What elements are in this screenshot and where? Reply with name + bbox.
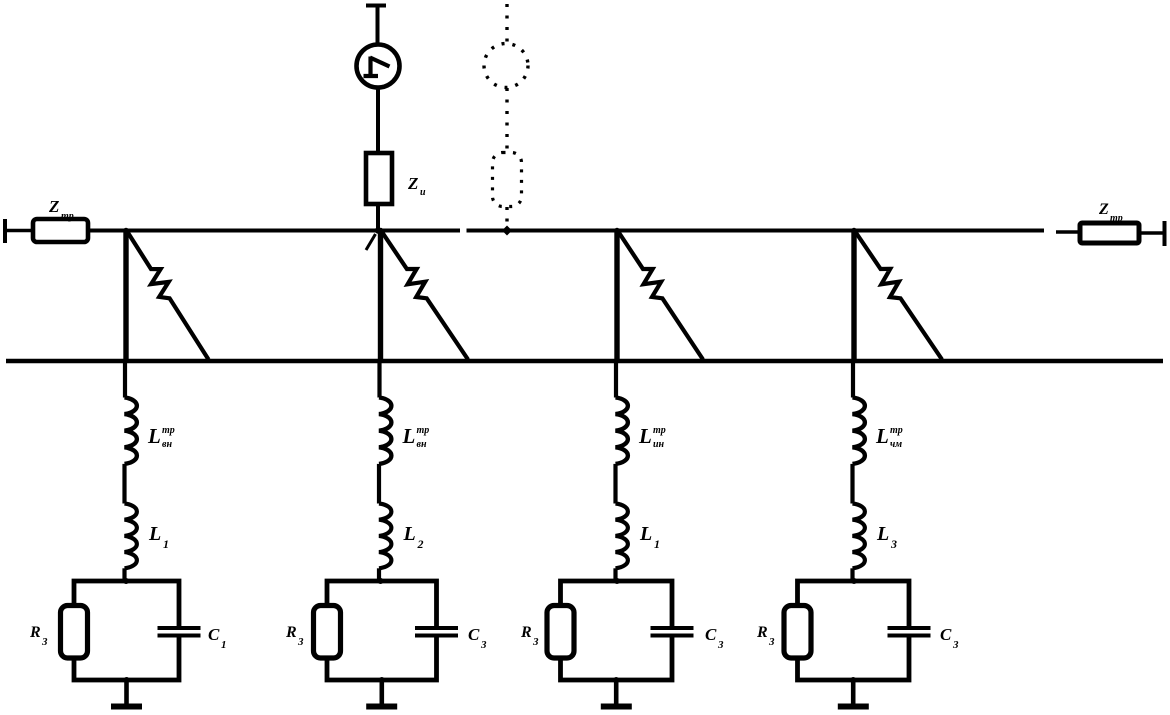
label C3 tower 4: [940, 625, 959, 651]
svg-text:3: 3: [297, 636, 304, 648]
node tower 1 on bus: [123, 228, 129, 234]
impedance Z_i box: [366, 153, 392, 204]
wire Zi to bus: [376, 204, 380, 231]
wire generator to Zi: [376, 87, 380, 153]
wire drop tower 2 (bus to rail): [378, 229, 383, 364]
node tank bottom 1: [124, 677, 130, 683]
terminal top bar: [366, 4, 386, 8]
wire top bus segment 3: [1056, 230, 1080, 234]
svg-text:R: R: [29, 624, 41, 641]
svg-text:C: C: [705, 625, 717, 644]
inductor L1 tower 3: [616, 504, 628, 569]
svg-text:L: L: [147, 424, 161, 448]
svg-text:ин: ин: [653, 439, 665, 450]
tank circuit frame 1: [74, 581, 179, 680]
wire drop tower 4 (rail to coil): [851, 361, 855, 398]
svg-text:L: L: [638, 424, 652, 448]
resistor R3 tower 3: [547, 606, 574, 659]
inductor L_tr 2: [379, 398, 391, 464]
resistor R3 tower 1: [61, 606, 88, 659]
wire left lead: [5, 229, 33, 233]
label L_tr 3: [638, 424, 666, 450]
wire drop tower 3 (bus to rail): [614, 229, 619, 364]
svg-text:L: L: [876, 523, 889, 545]
svg-text:L: L: [403, 523, 416, 545]
wire between coils 1: [122, 464, 126, 504]
svg-text:тр: тр: [890, 425, 903, 436]
wire drop tower 2 (rail to coil): [377, 361, 381, 398]
inductor L_tr 4: [853, 398, 865, 464]
ground tower 1: [111, 704, 142, 710]
wire right lead: [1139, 231, 1164, 235]
label L_tr 2: [402, 424, 430, 450]
label L_tr 4: [875, 424, 903, 450]
phantom dotted wire middle: [505, 88, 508, 152]
inductor L2 tower 2: [379, 504, 391, 569]
svg-text:L: L: [639, 523, 652, 545]
wire tank to ground 3: [614, 680, 619, 704]
svg-text:3: 3: [768, 636, 775, 648]
wire drop tower 4 (bus to rail): [851, 229, 856, 364]
tank circuit frame 3: [561, 581, 673, 680]
svg-text:тр: тр: [1110, 213, 1123, 224]
capacitor C3 plates tower 2: [415, 628, 458, 636]
capacitor C3 plates tower 4: [888, 628, 931, 636]
label Z_tr right: [1098, 201, 1123, 224]
svg-text:тр: тр: [417, 425, 430, 436]
wire generator top: [376, 6, 380, 46]
phantom dotted wire top: [505, 4, 508, 44]
svg-text:вн: вн: [162, 439, 172, 450]
wire tank to ground 2: [379, 680, 384, 704]
label R3 tower 2: [285, 624, 304, 648]
phantom dotted generator circle: [484, 44, 528, 88]
node tower 4 on bus: [851, 228, 857, 234]
wire drop tower 3 (rail to coil): [614, 361, 618, 398]
label L_tr 1: [147, 424, 175, 450]
svg-text:Z: Z: [1098, 201, 1109, 218]
wire top bus segment 1: [88, 229, 460, 233]
svg-text:C: C: [468, 625, 480, 644]
arrester spark gap 3: [619, 232, 704, 360]
resistor Z_tr left: [33, 219, 88, 242]
svg-text:Z: Z: [48, 197, 59, 216]
resistor R3 tower 2: [314, 606, 341, 659]
svg-text:Z: Z: [407, 174, 418, 193]
wire coil to tank 3: [613, 568, 617, 581]
wire between coils 4: [850, 464, 854, 504]
wire drop tower 1 (bus to rail): [123, 229, 128, 364]
label R3 tower 4: [756, 624, 775, 648]
svg-text:чм: чм: [890, 439, 902, 450]
wire ground rail: [6, 359, 1163, 364]
svg-text:вн: вн: [417, 439, 427, 450]
svg-text:1: 1: [221, 639, 227, 651]
node tower 2 on bus: [378, 228, 384, 234]
terminal right tick: [1163, 221, 1167, 246]
ground tower 2: [366, 704, 397, 710]
svg-text:тр: тр: [61, 211, 74, 222]
label L3 tower 4: [876, 523, 897, 551]
label Z_tr left: [48, 197, 74, 222]
svg-text:1: 1: [654, 537, 660, 551]
wire tank to ground 4: [851, 680, 856, 704]
node tower 3 on bus: [614, 228, 620, 234]
tank circuit frame 2: [327, 581, 437, 680]
svg-text:C: C: [940, 625, 952, 644]
label Z_i: [407, 174, 426, 198]
svg-text:R: R: [285, 624, 297, 641]
node tank bottom 2: [379, 677, 385, 683]
inductor L_tr 1: [125, 398, 137, 464]
wire coil to tank 2: [377, 568, 381, 581]
wire between coils 3: [613, 464, 617, 504]
phantom dotted impedance box: [493, 153, 522, 207]
svg-text:3: 3: [480, 639, 487, 651]
svg-text:1: 1: [163, 537, 169, 551]
resistor Z_tr right: [1080, 223, 1139, 243]
svg-text:R: R: [756, 624, 768, 641]
label L1 tower 3: [639, 523, 660, 551]
label L2 tower 2: [403, 523, 424, 551]
svg-text:тр: тр: [653, 425, 666, 436]
label C3 tower 2: [468, 625, 487, 651]
node tank top 2: [378, 578, 384, 584]
svg-text:3: 3: [717, 639, 724, 651]
svg-text:и: и: [420, 187, 426, 198]
label C3 tower 1: [208, 625, 227, 651]
capacitor C3 plates tower 1: [158, 628, 201, 636]
wire top bus segment 2: [467, 229, 1045, 233]
inductor L_tr 3: [616, 398, 628, 464]
capacitor C3 plates tower 3: [651, 628, 694, 636]
wire tank to ground 1: [124, 680, 129, 704]
svg-text:L: L: [402, 424, 416, 448]
svg-text:3: 3: [952, 639, 959, 651]
node tank top 1: [123, 578, 129, 584]
ground tower 3: [601, 704, 632, 710]
node tank bottom 4: [850, 677, 856, 683]
label R3 tower 3: [520, 624, 539, 648]
svg-text:3: 3: [532, 636, 539, 648]
inductor L3 tower 4: [853, 504, 865, 569]
wire drop tower 1 (rail to coil): [123, 361, 127, 398]
svg-text:тр: тр: [162, 425, 175, 436]
tank circuit frame 4: [798, 581, 910, 680]
node tank top 3: [614, 578, 620, 584]
wire coil to tank 1: [122, 568, 126, 581]
arrester spark gap 2: [382, 232, 468, 360]
svg-text:L: L: [148, 523, 161, 545]
arrester spark gap 1: [128, 232, 209, 360]
junction mark at generator node: [366, 227, 381, 250]
wire between coils 2: [377, 464, 381, 504]
resistor R3 tower 4: [784, 606, 811, 659]
wire coil to tank 4: [850, 568, 854, 581]
label L1 tower 1: [148, 523, 169, 551]
phantom dotted wire bottom: [505, 207, 508, 227]
generator G circle: [357, 45, 400, 88]
svg-text:3: 3: [890, 537, 897, 551]
svg-text:3: 3: [41, 636, 48, 648]
label C3 tower 3: [705, 625, 724, 651]
inductor L1 tower 1: [125, 504, 137, 569]
phantom junction dot on bus: [502, 226, 512, 236]
terminal left tick: [3, 219, 7, 243]
node tank top 4: [851, 578, 857, 584]
svg-text:C: C: [208, 625, 220, 644]
arrester spark gap 4: [856, 232, 943, 360]
svg-text:R: R: [520, 624, 532, 641]
svg-text:2: 2: [417, 537, 424, 551]
label R3 tower 1: [29, 624, 48, 648]
svg-text:L: L: [875, 424, 889, 448]
ground tower 4: [838, 704, 869, 710]
node tank bottom 3: [613, 677, 619, 683]
